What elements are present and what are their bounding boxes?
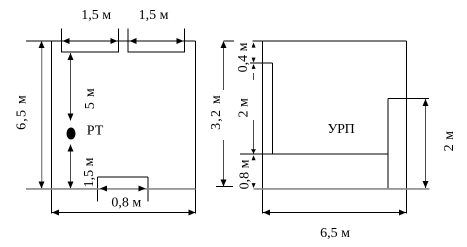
svg-text:2 м: 2 м (237, 98, 252, 118)
svg-text:1,5 м: 1,5 м (81, 8, 111, 23)
svg-text:6,5 м: 6,5 м (15, 94, 30, 130)
svg-text:РТ: РТ (87, 124, 104, 139)
svg-text:3,2 м: 3,2 м (209, 94, 224, 130)
svg-text:0,8 м: 0,8 м (111, 196, 141, 211)
svg-text:6,5 м: 6,5 м (320, 226, 350, 241)
svg-text:2 м: 2 м (442, 131, 457, 152)
svg-text:1,5 м: 1,5 м (82, 157, 97, 187)
svg-text:0,8 м: 0,8 м (238, 159, 253, 189)
svg-text:5 м: 5 м (83, 88, 98, 110)
svg-text:0,4 м: 0,4 м (236, 42, 251, 72)
svg-text:УРП: УРП (328, 122, 355, 137)
svg-text:1,5 м: 1,5 м (139, 8, 169, 23)
